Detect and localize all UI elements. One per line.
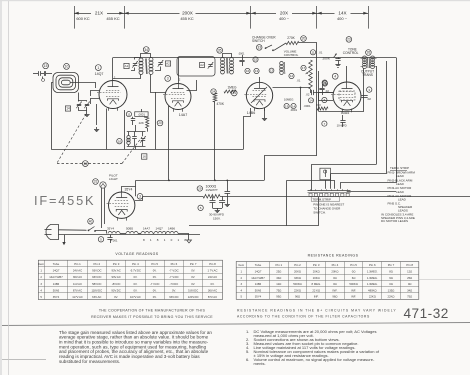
gang node 38 xyxy=(82,161,88,167)
svg-text:34Ω: 34Ω xyxy=(276,276,281,280)
osc trimmer gang xyxy=(141,138,145,140)
svg-text:CONTROL: CONTROL xyxy=(343,51,359,55)
svg-text:-5.7V.DC: -5.7V.DC xyxy=(130,269,141,273)
svg-text:substituted for measurements.: substituted for measurements. xyxy=(59,359,120,364)
svg-text:455 KC: 455 KC xyxy=(106,16,119,21)
svg-text:14B6: 14B6 xyxy=(247,111,255,115)
svg-text:.02: .02 xyxy=(367,97,372,101)
node 15 xyxy=(43,63,49,69)
T2 top lead xyxy=(223,54,232,58)
svg-text:.0001: .0001 xyxy=(290,108,297,112)
heater end hook xyxy=(178,234,189,241)
svg-text:.01: .01 xyxy=(297,79,301,83)
tuning gang dashed link xyxy=(57,114,86,163)
V4 grid node 28 xyxy=(322,81,327,86)
V2 grid return wire xyxy=(155,92,157,149)
V2 screen wire xyxy=(187,80,197,91)
pilot leads xyxy=(101,188,103,228)
svg-text:17: 17 xyxy=(302,66,306,70)
svg-text:1/2WATT: 1/2WATT xyxy=(206,188,219,192)
svg-text:93V.DC: 93V.DC xyxy=(169,295,178,299)
tube V1 1407 xyxy=(99,81,127,109)
T1 sec box A2 xyxy=(165,61,170,66)
V5 plate top xyxy=(122,187,136,193)
svg-text:1.: 1. xyxy=(246,329,249,334)
T1 top bus xyxy=(141,54,151,59)
osc wires xyxy=(106,109,108,150)
svg-text:34Ω: 34Ω xyxy=(407,288,412,292)
svg-text:200K: 200K xyxy=(323,56,331,60)
wire x317 up xyxy=(316,51,318,156)
svg-text:INF.: INF. xyxy=(351,288,356,292)
svg-text:35: 35 xyxy=(218,49,222,53)
svg-text:0V.: 0V. xyxy=(153,269,157,273)
svg-text:8Ω: 8Ω xyxy=(389,270,393,274)
svg-text:Pin 1: Pin 1 xyxy=(276,263,283,267)
osc cap .0001 box xyxy=(135,112,148,117)
osc node 10 xyxy=(117,139,122,144)
svg-text:6.: 6. xyxy=(246,357,249,362)
wire loop to trimmers xyxy=(79,93,87,102)
AVC bus cap to gnd xyxy=(227,180,229,191)
trimmer C1 xyxy=(77,104,81,106)
svg-text:33: 33 xyxy=(257,46,261,50)
V4 number xyxy=(332,73,338,79)
svg-text:150V.: 150V. xyxy=(213,216,221,220)
svg-text:0V.: 0V. xyxy=(114,295,118,299)
svg-text:.0001: .0001 xyxy=(238,52,245,56)
svg-text:Item: Item xyxy=(238,263,244,267)
svg-text:1 7V.AC: 1 7V.AC xyxy=(208,269,218,273)
tube V5 35Y4 xyxy=(109,192,135,218)
wire x286 right xyxy=(286,181,334,189)
strip wire b xyxy=(311,164,313,190)
svg-text:20KΩ: 20KΩ xyxy=(313,276,320,280)
node 6 xyxy=(198,205,203,210)
svg-text:38: 38 xyxy=(83,162,87,166)
T2 cluster caps xyxy=(239,60,244,62)
svg-text:0Ω: 0Ω xyxy=(333,276,337,280)
svg-text:3: 3 xyxy=(167,77,169,81)
svg-text:Pin 7: Pin 7 xyxy=(388,263,395,267)
V5 pin6 wire xyxy=(135,196,143,200)
svg-text:63V.AC: 63V.AC xyxy=(92,295,101,299)
svg-text:24V.AC: 24V.AC xyxy=(208,275,217,279)
svg-text:0Ω: 0Ω xyxy=(408,282,412,286)
svg-text:0V.: 0V. xyxy=(133,288,137,292)
V2 grid return node 20 xyxy=(157,120,163,126)
svg-text:93V.DC: 93V.DC xyxy=(92,269,101,273)
T1 node 34 xyxy=(143,47,149,53)
svg-text:SWITCH: SWITCH xyxy=(252,39,265,43)
node circle column xyxy=(269,68,274,73)
svg-text:11V.AC: 11V.AC xyxy=(73,282,82,286)
svg-text:96Ω: 96Ω xyxy=(332,295,337,299)
svg-text:35Y4: 35Y4 xyxy=(255,295,262,299)
svg-text:24V.AC: 24V.AC xyxy=(73,269,82,273)
svg-text:25Ω: 25Ω xyxy=(276,270,281,274)
svg-text:33KΩ: 33KΩ xyxy=(294,276,301,280)
svg-text:INF.: INF. xyxy=(351,295,356,299)
svg-text:11: 11 xyxy=(127,112,130,116)
svg-text:14B6: 14B6 xyxy=(255,282,262,286)
svg-text:500KΩ: 500KΩ xyxy=(349,282,357,286)
svg-text:400 ~: 400 ~ xyxy=(279,16,290,21)
V1 ground stub xyxy=(96,104,98,125)
svg-text:96Ω: 96Ω xyxy=(295,295,300,299)
IF transformer T2 xyxy=(221,58,225,62)
svg-text:5.: 5. xyxy=(246,349,249,354)
svg-text:A2: A2 xyxy=(200,63,204,67)
svg-text:93V.AC: 93V.AC xyxy=(111,275,120,279)
V5 number xyxy=(137,194,143,200)
svg-text:14B6: 14B6 xyxy=(53,282,60,286)
svg-text:14A7: 14A7 xyxy=(179,113,187,117)
T2 cluster nodes xyxy=(253,57,258,62)
svg-text:Pin 8: Pin 8 xyxy=(209,262,216,266)
wire x264 riser xyxy=(265,156,318,181)
svg-text:4: 4 xyxy=(334,75,336,79)
svg-text:471-32: 471-32 xyxy=(404,306,449,321)
pilot node 31 xyxy=(93,179,99,185)
svg-text:500KΩ: 500KΩ xyxy=(293,282,301,286)
svg-text:LIGHT: LIGHT xyxy=(109,177,118,181)
node 10 xyxy=(64,64,70,70)
line cap .001 xyxy=(98,237,103,242)
svg-text:12Ω: 12Ω xyxy=(276,282,281,286)
svg-text:14A7/12B7: 14A7/12B7 xyxy=(251,276,265,280)
svg-text:16: 16 xyxy=(246,69,250,73)
svg-text:-8V.DC: -8V.DC xyxy=(112,282,121,286)
terminal strip xyxy=(308,190,351,192)
V1 grid wire xyxy=(91,91,100,97)
svg-text:14: 14 xyxy=(66,107,70,111)
svg-text:35Y4: 35Y4 xyxy=(125,188,133,192)
svg-text:10MEG: 10MEG xyxy=(284,98,293,102)
svg-text:0V.: 0V. xyxy=(133,275,137,279)
svg-text:75Ω: 75Ω xyxy=(276,288,281,292)
svg-text:Pin 6: Pin 6 xyxy=(171,262,178,266)
svg-text:1.3MEG.: 1.3MEG. xyxy=(367,270,378,274)
svg-text:8 MEG.: 8 MEG. xyxy=(312,282,322,286)
svg-text:16: 16 xyxy=(143,155,147,159)
node 7 xyxy=(322,121,327,126)
svg-text:14: 14 xyxy=(309,99,313,103)
V1 number xyxy=(95,65,101,71)
svg-text:87V.AC: 87V.AC xyxy=(208,295,217,299)
svg-text:21X: 21X xyxy=(95,11,103,16)
V1 left pin wires xyxy=(91,99,100,105)
svg-text:14Q7: 14Q7 xyxy=(53,269,60,273)
loop antenna L1 xyxy=(53,73,79,93)
V2 cathode wire xyxy=(169,107,170,181)
V2 number xyxy=(165,76,171,82)
svg-text:15: 15 xyxy=(44,64,48,68)
svg-text:28: 28 xyxy=(323,82,327,86)
svg-text:36V.AC: 36V.AC xyxy=(208,288,217,292)
svg-text:3: 3 xyxy=(139,195,141,199)
svg-text:14X: 14X xyxy=(338,11,346,16)
V1 plate wire to IFT1 xyxy=(112,58,114,81)
svg-text:93V.AC: 93V.AC xyxy=(111,269,120,273)
V3 cathode ground xyxy=(264,108,266,117)
svg-text:200X: 200X xyxy=(182,11,193,16)
svg-text:9Ω: 9Ω xyxy=(389,276,393,280)
svg-text:400 ~: 400 ~ xyxy=(337,16,348,21)
padder box A4 xyxy=(65,106,70,111)
svg-text:14Q7: 14Q7 xyxy=(95,72,104,76)
T1 sec trimmer xyxy=(158,62,162,64)
svg-text:15: 15 xyxy=(254,58,258,62)
svg-text:0V.: 0V. xyxy=(153,288,157,292)
svg-text:29: 29 xyxy=(198,187,202,191)
svg-text:SWITCH.: SWITCH. xyxy=(313,210,326,214)
svg-text:Pin 3: Pin 3 xyxy=(113,262,120,266)
svg-text:120V.DC: 120V.DC xyxy=(188,295,199,299)
svg-text:-7 V.DC: -7 V.DC xyxy=(169,269,179,273)
tube V3 14B6 xyxy=(246,82,272,108)
speaker lead 2 xyxy=(331,61,387,174)
B- bottom bus xyxy=(189,197,319,226)
switch to heater wire xyxy=(95,231,107,234)
V3 diode caps xyxy=(284,104,289,109)
svg-text:50A5: 50A5 xyxy=(53,288,60,292)
svg-text:RESISTANCE READINGS: RESISTANCE READINGS xyxy=(308,253,359,257)
svg-text:DC MOTOR LEADS: DC MOTOR LEADS xyxy=(381,219,408,223)
svg-text:Pin 1: Pin 1 xyxy=(74,262,81,266)
trimmer C2 xyxy=(85,104,89,106)
svg-text:12Ω: 12Ω xyxy=(407,270,412,274)
svg-text:5.8V.DC: 5.8V.DC xyxy=(188,288,198,292)
svg-text:0V.: 0V. xyxy=(211,282,215,286)
svg-text:270K: 270K xyxy=(287,36,295,40)
AF node 18 xyxy=(322,97,327,102)
svg-text:ACCORDING TO THE CONDITION: ACCORDING TO THE CONDITION OF THE FILTER… xyxy=(237,315,370,319)
svg-text:22KΩ: 22KΩ xyxy=(294,288,301,292)
diode line xyxy=(273,87,311,89)
T2 node 35 xyxy=(217,47,223,53)
svg-text:-7 V.DC: -7 V.DC xyxy=(169,275,179,279)
svg-text:Pin 5: Pin 5 xyxy=(350,263,357,267)
svg-text:20KΩ: 20KΩ xyxy=(331,270,338,274)
svg-text:.001: .001 xyxy=(112,239,118,243)
svg-text:75Ω: 75Ω xyxy=(407,295,412,299)
svg-text:0V.: 0V. xyxy=(133,282,137,286)
svg-text:35Y4: 35Y4 xyxy=(107,227,114,231)
shield box xyxy=(177,57,215,77)
V4 cap .02 xyxy=(361,95,367,97)
svg-text:0Ω: 0Ω xyxy=(333,282,337,286)
svg-text:24: 24 xyxy=(212,90,216,94)
svg-text:-7 V.DC: -7 V.DC xyxy=(150,282,160,286)
svg-text:93V.DC: 93V.DC xyxy=(111,288,120,292)
svg-text:Item: Item xyxy=(38,262,44,266)
svg-text:50B5: 50B5 xyxy=(126,227,133,231)
plug bottom wire xyxy=(59,234,201,236)
svg-text:600 KC: 600 KC xyxy=(76,16,89,21)
svg-text:A1: A1 xyxy=(125,64,129,68)
svg-text:470K: 470K xyxy=(217,102,225,106)
svg-text:10: 10 xyxy=(65,65,69,69)
top bus B+ xyxy=(113,57,396,59)
svg-text:.0001: .0001 xyxy=(138,112,146,116)
svg-text:58V.DC: 58V.DC xyxy=(92,282,101,286)
edge line bottom left xyxy=(0,359,46,361)
filter cap 1 xyxy=(212,196,214,200)
svg-text:RECEIVER MAKES IT POSSIBLE TO: RECEIVER MAKES IT POSSIBLE TO BRING YOU … xyxy=(91,315,213,319)
AC line ground arrow xyxy=(64,235,66,242)
shield trimmer xyxy=(208,64,212,66)
svg-text:34: 34 xyxy=(144,48,148,52)
svg-text:107V.AC: 107V.AC xyxy=(130,295,141,299)
svg-text:0V.: 0V. xyxy=(191,269,195,273)
svg-text:.01: .01 xyxy=(319,50,323,54)
svg-text:87V.AC: 87V.AC xyxy=(73,288,82,292)
antenna series capacitor xyxy=(33,73,38,75)
svg-text:0V.: 0V. xyxy=(191,275,195,279)
svg-text:VOLTAGE READINGS: VOLTAGE READINGS xyxy=(115,252,158,256)
svg-text:Pin 8: Pin 8 xyxy=(406,263,413,267)
shield box label xyxy=(200,63,205,68)
svg-text:TERM. STRIP: TERM. STRIP xyxy=(390,166,409,170)
svg-text:22KΩ: 22KΩ xyxy=(388,295,395,299)
V2 plate wire xyxy=(178,58,180,84)
B+ line xyxy=(143,196,203,198)
svg-text:Volume control at maximum, no: Volume control at maximum, no signal app… xyxy=(254,357,375,362)
svg-text:50A5: 50A5 xyxy=(255,288,262,292)
svg-text:13: 13 xyxy=(255,69,259,73)
svg-text:Pin 2: Pin 2 xyxy=(294,263,301,267)
svg-text:22 KΩ: 22 KΩ xyxy=(312,288,320,292)
wire x286 down xyxy=(286,181,288,226)
strip wire e xyxy=(347,191,396,193)
svg-text:0Ω: 0Ω xyxy=(389,282,393,286)
svg-text:Pin 6: Pin 6 xyxy=(369,263,376,267)
svg-text:0V.: 0V. xyxy=(191,282,195,286)
svg-text:20KΩ: 20KΩ xyxy=(313,270,320,274)
svg-text:40: 40 xyxy=(89,220,93,224)
osc box 16 xyxy=(142,154,147,159)
fuse box xyxy=(320,168,331,180)
svg-text:A2: A2 xyxy=(166,62,170,66)
svg-text:10: 10 xyxy=(118,139,122,143)
svg-text:22K: 22K xyxy=(139,121,144,125)
svg-text:480KΩ: 480KΩ xyxy=(368,288,376,292)
svg-text:12: 12 xyxy=(290,74,294,78)
svg-text:CONTROL: CONTROL xyxy=(284,53,299,57)
svg-text:22KΩ: 22KΩ xyxy=(369,295,376,299)
svg-text:0V.: 0V. xyxy=(153,295,157,299)
osc coil xyxy=(280,61,284,65)
separator rule xyxy=(0,323,470,326)
svg-text:117V.AC: 117V.AC xyxy=(72,295,83,299)
svg-text:.02: .02 xyxy=(306,92,310,96)
svg-text:13: 13 xyxy=(270,69,274,73)
osc cluster buses xyxy=(127,131,146,133)
ground below trimmers xyxy=(86,107,88,112)
on-off switch xyxy=(88,219,94,225)
AC plug xyxy=(46,225,58,240)
loop tap wire xyxy=(70,83,95,89)
page top edge xyxy=(0,0,470,1)
svg-text:99Ω: 99Ω xyxy=(276,295,281,299)
svg-text:11: 11 xyxy=(311,51,314,55)
svg-text:14A7: 14A7 xyxy=(143,227,150,231)
svg-text:Tube: Tube xyxy=(255,263,262,267)
svg-text:14Q7: 14Q7 xyxy=(156,227,164,231)
svg-text:14Q7: 14Q7 xyxy=(255,270,262,274)
resistor 470K (screen) xyxy=(213,93,217,102)
svg-text:10-MFD: 10-MFD xyxy=(337,124,347,128)
svg-text:Pin 5: Pin 5 xyxy=(151,262,158,266)
svg-text:INF.: INF. xyxy=(332,288,337,292)
AVC bus left drop xyxy=(135,180,137,196)
tone cap .01 xyxy=(310,50,315,55)
V3 cathode riser xyxy=(244,108,251,149)
tone wiper arrow xyxy=(334,54,337,58)
svg-text:19: 19 xyxy=(285,104,289,108)
plug top wire xyxy=(59,229,87,232)
svg-text:Pin 7: Pin 7 xyxy=(190,262,197,266)
node 14 near det xyxy=(309,98,314,103)
svg-text:IF=455K: IF=455K xyxy=(34,193,95,208)
svg-text:26: 26 xyxy=(367,51,371,55)
heater chain xyxy=(108,232,120,234)
tube V4 50A5 xyxy=(333,82,361,110)
svg-text:8 1 8 1 0 1 8: 8 1 8 1 0 1 8 xyxy=(143,238,188,242)
osc grid cap xyxy=(132,117,134,119)
svg-text:Pin 2: Pin 2 xyxy=(94,262,101,266)
T1 bottom leads xyxy=(113,75,141,79)
coupling cap .02 xyxy=(311,89,312,93)
cap 10MFD xyxy=(340,120,345,122)
strip wire d xyxy=(340,183,342,189)
svg-text:Pin 4: Pin 4 xyxy=(132,262,139,266)
cap .01 node 12 xyxy=(289,73,294,78)
fold line right xyxy=(419,279,470,281)
wire trimmer junction xyxy=(79,107,88,111)
speaker lead 1 xyxy=(376,66,378,164)
svg-text:1.3MEG.: 1.3MEG. xyxy=(367,276,378,280)
svg-text:-7V.DC: -7V.DC xyxy=(170,282,179,286)
filter cap 2 xyxy=(222,196,224,200)
V4 box wires xyxy=(319,93,334,101)
svg-text:TRANS: TRANS xyxy=(362,73,373,77)
V4 coupling node 3 xyxy=(367,87,372,92)
svg-text:RESISTANCE READINGS IN THE B+: RESISTANCE READINGS IN THE B+ CIRCUITS M… xyxy=(237,309,397,313)
V4 output box xyxy=(318,71,320,111)
page left edge xyxy=(0,0,2,375)
loop left lead down xyxy=(52,83,54,150)
svg-text:TERM.STRIP: TERM.STRIP xyxy=(312,197,331,201)
tube V2 14A7 xyxy=(165,84,191,110)
V3 out coupling xyxy=(322,80,327,85)
junction dots xyxy=(168,180,170,182)
svg-text:0V.: 0V. xyxy=(172,288,176,292)
V3 plate wire xyxy=(259,77,261,82)
svg-text:20: 20 xyxy=(302,37,306,41)
svg-text:20X: 20X xyxy=(280,11,288,16)
svg-text:INF.: INF. xyxy=(314,295,319,299)
T1 box A1 xyxy=(124,63,129,68)
svg-text:455 KC: 455 KC xyxy=(180,16,193,21)
svg-text:.0001: .0001 xyxy=(304,104,311,108)
svg-text:Tube: Tube xyxy=(53,262,60,266)
svg-text:1.3MEG.: 1.3MEG. xyxy=(367,282,378,286)
output transformer T3 xyxy=(363,56,367,59)
T1 trimmer left xyxy=(133,63,137,65)
svg-text:14A7/12B7: 14A7/12B7 xyxy=(49,275,63,279)
